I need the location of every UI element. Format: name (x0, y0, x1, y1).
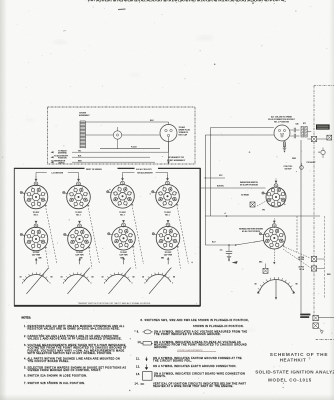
svg-text:xxxx: xxxx (141, 384, 145, 386)
svg-text:0: 0 (63, 283, 64, 285)
svg-text:CAP TWR: CAP TWR (119, 253, 128, 256)
svg-text:NO. 1: NO. 1 (76, 215, 80, 217)
svg-text:10: 10 (102, 277, 104, 279)
svg-text:8.: 8. (141, 319, 144, 322)
svg-text:SWITCH S2A SHOWN IN LOBE POSIT: SWITCH S2A SHOWN IN LOBE POSITION. (28, 373, 88, 377)
svg-text:SWITCH S2B SHOWN IN CAL POSITI: SWITCH S2B SHOWN IN CAL POSITION. (28, 381, 86, 385)
svg-text:IGN ACCESSORY: IGN ACCESSORY (137, 171, 153, 174)
svg-text:THE CIRCUIT BOARD FOIL.: THE CIRCUIT BOARD FOIL. (153, 360, 192, 363)
svg-text:REST OF WIRES: REST OF WIRES (86, 169, 102, 171)
svg-text:5.: 5. (24, 366, 27, 369)
svg-text:THE CIRCUIT BOARD PANEL.: THE CIRCUIT BOARD PANEL. (28, 359, 70, 363)
svg-text:ON TOP: ON TOP (285, 168, 293, 170)
svg-text:10: 10 (20, 277, 22, 279)
svg-text:10: 10 (142, 277, 144, 279)
svg-text:MEASURED FROM THE POINT INDICA: MEASURED FROM THE POINT INDICATED TO CHA… (154, 344, 247, 347)
svg-text:®: ® (309, 357, 311, 360)
svg-text:RESISTOR VALUES ARE IN OHMS (K: RESISTOR VALUES ARE IN OHMS (K=1000, M=1… (28, 327, 120, 331)
svg-text:12.: 12. (136, 366, 140, 369)
svg-text:CAP TWR: CAP TWR (75, 253, 84, 256)
svg-text:1-2 IGNITION: 1-2 IGNITION (51, 172, 63, 174)
svg-text:0: 0 (145, 283, 146, 285)
svg-text:S2 REAR: S2 REAR (241, 194, 249, 197)
svg-text:7.: 7. (24, 382, 27, 385)
svg-text:P501: P501 (292, 158, 296, 160)
svg-text:1.: 1. (24, 325, 27, 328)
svg-text:1: 1 (91, 283, 92, 285)
svg-text:SHOWN IN PLUNGED-IN POSITION.: SHOWN IN PLUNGED-IN POSITION. (193, 325, 244, 328)
svg-text:NOTES:: NOTES: (22, 317, 32, 320)
svg-text:80: 80 (133, 277, 135, 279)
svg-text:YEL: YEL (78, 150, 81, 152)
svg-text:6.: 6. (24, 374, 27, 377)
svg-text:AT ALL TEST POINTS: AT ALL TEST POINTS (242, 230, 261, 233)
svg-text:0: 0 (104, 283, 105, 285)
svg-text:3.: 3. (24, 344, 27, 347)
svg-text:ON A SYMBOL INDICATES CIRCUIT: ON A SYMBOL INDICATES CIRCUIT BOARD WIRE… (154, 372, 245, 375)
svg-text:HEATHKIT: HEATHKIT (280, 358, 306, 363)
svg-text:1 2 3: 1 2 3 (280, 133, 284, 135)
svg-text:* 9.: * 9. (135, 331, 140, 334)
svg-text:POINTS.: POINTS. (154, 375, 166, 378)
svg-text:THE POINT INDICATED TO CHASSIS: THE POINT INDICATED TO CHASSIS GROUND. (154, 333, 221, 336)
svg-text:MODEL CO-1015: MODEL CO-1015 (268, 377, 312, 382)
svg-text:HEAVIER AT A WIRE FROM THAT PA: HEAVIER AT A WIRE FROM THAT PART OF THE … (153, 385, 234, 388)
svg-text:30: 30 (255, 284, 257, 286)
svg-text:CAP TWR: CAP TWR (32, 253, 41, 256)
svg-text:NO. 1: NO. 1 (165, 215, 169, 217)
svg-text:NO. 1: NO. 1 (34, 215, 38, 217)
svg-text:TP1: TP1 (262, 210, 265, 212)
svg-text:POINT ASSEMBLY: POINT ASSEMBLY (167, 159, 186, 162)
svg-text:1: 1 (50, 283, 51, 285)
svg-text:OF C35: OF C35 (298, 259, 304, 261)
svg-text:1: 1 (132, 283, 133, 285)
svg-text:0: 0 (22, 283, 23, 285)
svg-text:C36: C36 (296, 124, 299, 126)
svg-text:4.: 4. (24, 357, 27, 360)
svg-text:NO. 1 POSITION: NO. 1 POSITION (274, 121, 289, 123)
svg-text:13.: 13. (136, 373, 140, 376)
svg-text:11.: 11. (136, 358, 140, 361)
svg-text:P-CLD: P-CLD (131, 147, 137, 149)
svg-text:PRIMARY: PRIMARY (306, 161, 316, 164)
svg-text:1: 1 (172, 283, 173, 285)
svg-text:SWITCHES SW1, SW2 AND SW3 ARE: SWITCHES SW1, SW2 AND SW3 ARE SHOWN IN P… (145, 319, 249, 322)
svg-text:IN SCOPE POSITION: IN SCOPE POSITION (240, 185, 258, 187)
svg-text:SCHEMATIC OF THE: SCHEMATIC OF THE (270, 352, 329, 357)
svg-text:14.: 14. (135, 383, 139, 386)
svg-text:DIST. CAP: DIST. CAP (179, 134, 188, 137)
svg-text:90: 90 (296, 284, 298, 286)
svg-text:SOLID-STATE IGNITION ANALYZER: SOLID-STATE IGNITION ANALYZER (255, 369, 334, 374)
svg-text:CAP TWR: CAP TWR (164, 253, 173, 256)
svg-text:R77: R77 (303, 123, 306, 125)
svg-text:4: 4 (225, 213, 226, 215)
svg-text:10: 10 (61, 277, 63, 279)
svg-text:VIEWED FROM MARKED END OF CONT: VIEWED FROM MARKED END OF CONTROL SHAFT. (28, 368, 102, 372)
svg-text:ANTENNA: ANTENNA (58, 152, 67, 155)
svg-text:OF L4: OF L4 (299, 269, 304, 271)
svg-text:LIGHTS: LIGHTS (58, 163, 65, 165)
svg-text:POSITION: POSITION (58, 158, 67, 160)
svg-text:VALUES 1 AND ABOVE ARE IN PF U: VALUES 1 AND ABOVE ARE IN PF UNLESS MARK… (28, 337, 122, 341)
svg-text:NO. 1: NO. 1 (120, 215, 124, 217)
svg-text:80: 80 (92, 277, 94, 279)
svg-text:ON A SYMBOL INDICATES EARTH GR: ON A SYMBOL INDICATES EARTH GROUND CONNE… (153, 365, 237, 368)
svg-text:2.: 2. (24, 335, 27, 338)
svg-text:80: 80 (173, 277, 175, 279)
svg-text:80: 80 (51, 277, 53, 279)
svg-text:WITH SELECTOR SWITCH SET IN AN: WITH SELECTOR SWITCH SET IN ANY NORMAL P… (28, 351, 113, 355)
svg-text:SCHEMATIC OF: SCHEMATIC OF (168, 156, 185, 159)
svg-text:TRANSNT SWITCH POSITIONS FOR T: TRANSNT SWITCH POSITIONS FOR THE P.T. AN… (78, 302, 151, 305)
svg-text:ASSEMBLY: ASSEMBLY (79, 114, 90, 117)
svg-text:10.: 10. (138, 341, 142, 344)
svg-text:GROUND.: GROUND. (154, 346, 168, 349)
svg-text:BLK/YEL: BLK/YEL (217, 186, 224, 188)
